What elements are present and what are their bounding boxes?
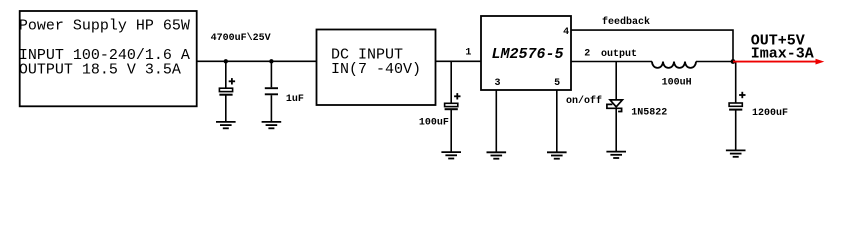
svg-text:on/off: on/off xyxy=(566,95,602,107)
regulator U1 LM2576-5 xyxy=(481,16,571,90)
svg-text:feedback: feedback xyxy=(602,16,650,28)
wire to pin 1 xyxy=(436,60,482,62)
svg-text:2: 2 xyxy=(584,48,590,59)
svg-text:3: 3 xyxy=(495,78,501,89)
wire pin 3 to ground xyxy=(495,90,497,152)
wire inductor to node xyxy=(696,61,733,63)
DC input block U2 xyxy=(317,30,436,106)
svg-text:5: 5 xyxy=(554,78,560,89)
svg-text:100uF: 100uF xyxy=(419,117,449,128)
wire pin 5 to ground xyxy=(556,90,558,152)
svg-text:Imax-3A: Imax-3A xyxy=(751,45,814,62)
ground G7 xyxy=(726,150,746,156)
inductor L1 100uH xyxy=(652,62,696,89)
svg-text:LM2576-5: LM2576-5 xyxy=(492,46,564,63)
ground G6 xyxy=(606,152,626,158)
node junction dot C xyxy=(731,59,736,64)
wire feedback net xyxy=(571,30,733,61)
wire output net xyxy=(571,61,652,63)
svg-text:1200uF: 1200uF xyxy=(752,108,788,119)
svg-text:output: output xyxy=(601,49,637,60)
svg-text:1: 1 xyxy=(465,47,471,58)
node junction dot A xyxy=(224,59,228,63)
capacitor C4 1200uF xyxy=(729,62,788,151)
svg-text:4: 4 xyxy=(563,27,569,38)
diode D1 1N5822 xyxy=(607,62,667,152)
svg-text:100uH: 100uH xyxy=(662,78,692,89)
capacitor C2 1uF xyxy=(265,61,304,122)
ground G3 xyxy=(441,152,461,158)
node junction dot B xyxy=(269,59,273,63)
wire output arrow red xyxy=(733,59,824,65)
svg-text:4700uF\25V: 4700uF\25V xyxy=(211,32,271,44)
power supply block PS1 xyxy=(19,11,197,106)
svg-text:1N5822: 1N5822 xyxy=(631,108,667,119)
capacitor C3 100uF xyxy=(419,61,461,152)
ground G5 xyxy=(547,152,567,158)
ground G2 xyxy=(262,122,282,128)
wire input bus xyxy=(197,60,317,62)
ground G1 xyxy=(216,122,236,128)
capacitor C1 4700uF\25V xyxy=(211,32,271,122)
svg-text:IN(7 -40V): IN(7 -40V) xyxy=(331,61,421,78)
svg-text:Power Supply HP 65W: Power Supply HP 65W xyxy=(19,17,190,34)
svg-text:OUTPUT 18.5 V 3.5A: OUTPUT 18.5 V 3.5A xyxy=(19,61,181,78)
ground G4 xyxy=(487,152,507,158)
svg-text:1uF: 1uF xyxy=(286,94,304,105)
